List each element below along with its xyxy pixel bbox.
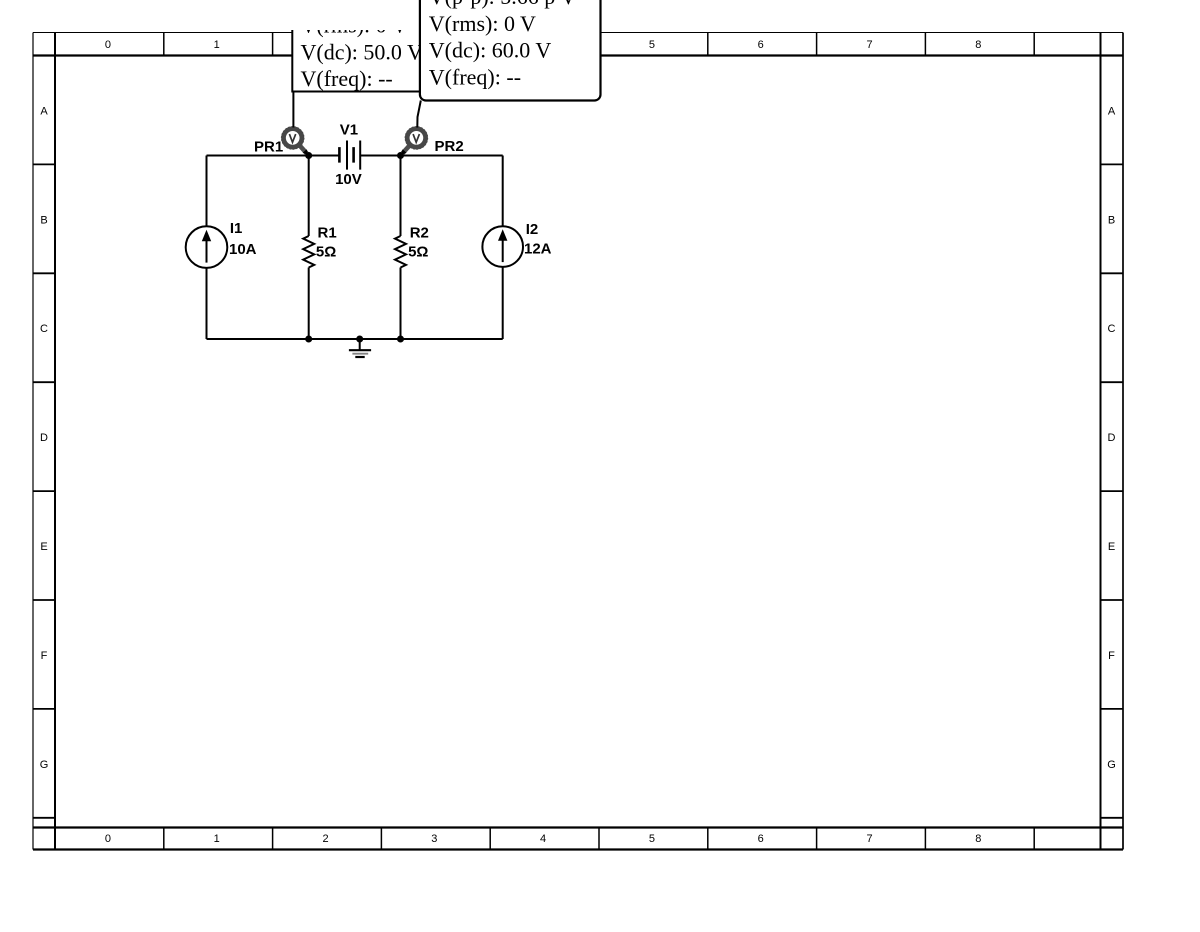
svg-text:V(dc): 50.0 V: V(dc): 50.0 V [301, 39, 424, 64]
wire popup PR1 to probe [292, 92, 294, 128]
junction node bottom R2 [397, 336, 404, 343]
current source I2 [482, 226, 523, 267]
frame inner top band line [33, 54, 1123, 56]
wire R2 branch [400, 156, 402, 340]
junction node bottom R1 [305, 336, 312, 343]
frame row dividers right band [1101, 164, 1124, 817]
frame column dividers bottom band [164, 828, 1034, 850]
junction node top R2 [397, 152, 404, 159]
current source I1 [186, 226, 228, 268]
svg-text:12A: 12A [524, 241, 552, 258]
frame column dividers top band [164, 33, 1034, 56]
svg-text:PR2: PR2 [435, 138, 464, 155]
svg-text:5Ω: 5Ω [316, 244, 336, 261]
svg-text:5Ω: 5Ω [408, 244, 428, 261]
sheet border frame outer rectangle [33, 32, 1123, 34]
svg-text:V(p-p): 5.66 p V: V(p-p): 5.66 p V [429, 0, 577, 9]
svg-text:V(freq): --: V(freq): -- [429, 64, 521, 89]
svg-text:I1: I1 [230, 220, 243, 237]
battery V1 symbol [339, 141, 360, 170]
ground symbol [359, 339, 361, 350]
frame row dividers left band [33, 164, 55, 817]
svg-text:10A: 10A [229, 241, 257, 258]
frame inner bottom band line [33, 826, 1123, 828]
junction node top R1 [305, 152, 312, 159]
probe PR2 magnifier [401, 127, 428, 156]
wire top-right: battery to I2 top [360, 155, 503, 157]
wire right branch I2 [502, 156, 504, 340]
svg-text:R1: R1 [318, 225, 337, 242]
wire top-left: I1 top to battery [207, 155, 340, 157]
wire left branch I1 [206, 156, 208, 340]
svg-text:10V: 10V [335, 171, 362, 188]
wire popup PR2 to probe [417, 101, 421, 128]
svg-text:I2: I2 [526, 221, 539, 238]
probe PR1 magnifier [282, 127, 309, 156]
probe PR1 popup box (clipped at top) [288, 0, 440, 92]
resistor R1 zigzag [303, 236, 314, 268]
svg-text:V(freq): --: V(freq): -- [301, 66, 393, 91]
probe PR2 popup box [420, 0, 601, 101]
wire bottom bus [207, 338, 503, 340]
frame inner left band line [54, 33, 56, 850]
resistor R2 zigzag [395, 236, 406, 268]
frame inner right band line [1100, 33, 1102, 850]
svg-text:V1: V1 [340, 122, 358, 139]
svg-text:R2: R2 [410, 225, 429, 242]
svg-text:V(rms): 0 V: V(rms): 0 V [429, 11, 536, 36]
svg-text:PR1: PR1 [254, 139, 283, 156]
svg-text:V(dc): 60.0 V: V(dc): 60.0 V [429, 38, 552, 63]
wire R1 branch [308, 156, 310, 340]
junction node bottom ground [356, 336, 363, 343]
